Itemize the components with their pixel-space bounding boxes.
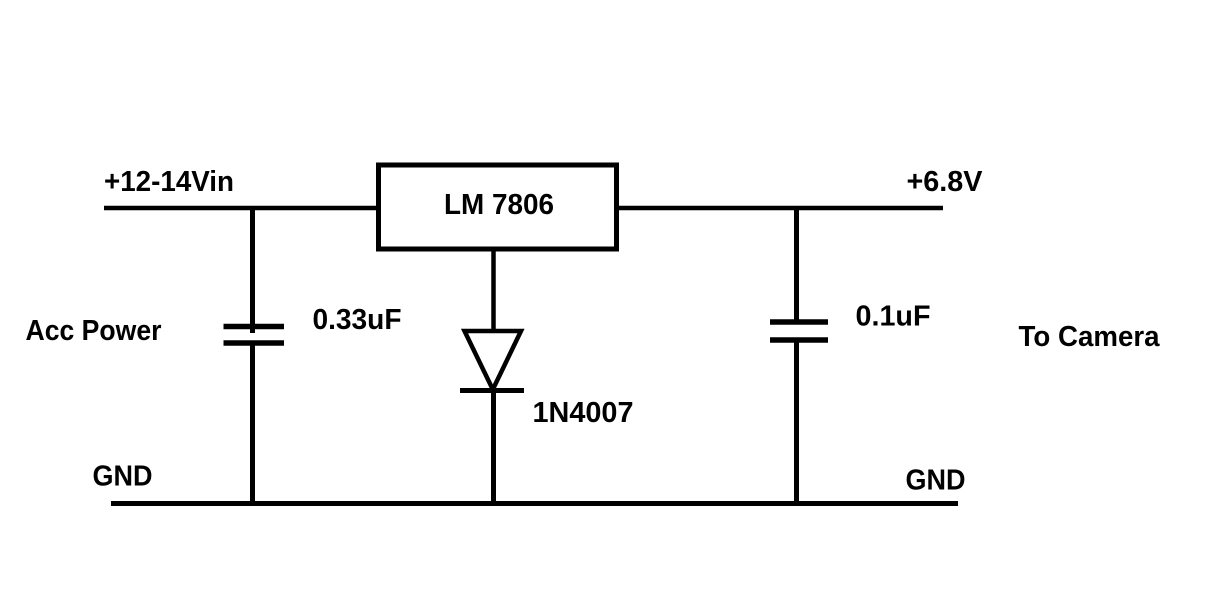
capacitor C2 top plate [770,319,828,325]
wire capacitor C2 lower lead to ground [794,340,799,503]
capacitor C1 bottom plate [224,340,285,346]
svg-text:GND: GND [906,465,966,497]
svg-text:To Camera: To Camera [1019,321,1161,353]
svg-text:LM 7806: LM 7806 [444,189,554,221]
svg-text:0.33uF: 0.33uF [313,304,402,336]
capacitor C1 top plate [224,324,285,330]
diode D1 cathode bar [460,388,524,393]
wire capacitor C1 lower lead to ground [250,343,255,503]
wire output rail from regulator to +6.8V [617,206,943,211]
wire input rail from +12-14Vin to regulator [104,206,380,211]
svg-text:Acc Power: Acc Power [26,315,162,347]
diode D1 triangle [465,331,522,390]
regulator U1 LM 7806 box [379,165,617,249]
capacitor C2 bottom plate [770,337,828,343]
svg-text:+12-14Vin: +12-14Vin [104,166,234,198]
wire capacitor C2 upper lead [794,206,799,324]
svg-text:+6.8V: +6.8V [907,166,984,198]
svg-text:0.1uF: 0.1uF [856,301,931,333]
wire ground rail [111,501,958,506]
wire diode D1 cathode lead to ground [491,390,496,503]
svg-text:GND: GND [93,461,153,493]
wire capacitor C1 upper lead [250,206,255,333]
wire diode D1 anode lead from regulator pin [491,248,496,333]
svg-text:1N4007: 1N4007 [533,397,634,429]
